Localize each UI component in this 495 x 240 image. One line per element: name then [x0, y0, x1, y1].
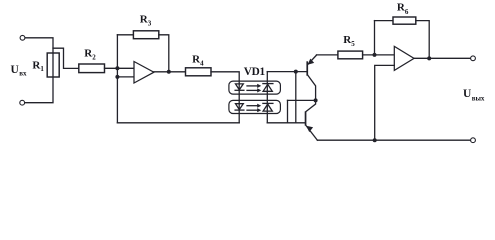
wire	[374, 21, 376, 55]
label R4	[192, 54, 204, 68]
label Uvyx	[463, 88, 485, 102]
resistor R5	[338, 51, 363, 59]
terminal output bottom	[471, 138, 476, 143]
svg-text:5: 5	[351, 40, 355, 48]
svg-text:U: U	[463, 88, 472, 100]
resistor R3	[117, 31, 168, 72]
wire	[105, 67, 135, 69]
node D junction	[294, 70, 298, 74]
resistor R1	[47, 53, 59, 77]
svg-text:VD1: VD1	[244, 66, 266, 78]
wire	[375, 20, 394, 22]
wire	[116, 35, 118, 123]
wire	[416, 21, 429, 59]
label R1	[32, 59, 44, 73]
wire	[266, 72, 268, 123]
resistor R2	[79, 64, 105, 73]
wire	[375, 65, 395, 140]
wire	[53, 48, 79, 68]
wire	[267, 71, 306, 73]
optocoupler VD1 box B	[229, 100, 281, 113]
op-amp U1	[134, 62, 154, 84]
label Uvx	[11, 64, 27, 78]
wire	[267, 122, 305, 124]
wire	[317, 54, 338, 56]
wire	[295, 72, 297, 123]
wire	[288, 99, 316, 101]
photodiode A	[263, 84, 273, 92]
optocoupler VD1 box A	[229, 81, 281, 94]
wire	[363, 54, 395, 56]
node F junction	[373, 53, 377, 57]
terminal input top	[20, 35, 25, 40]
svg-text:вых: вых	[472, 94, 485, 102]
svg-text:вх: вх	[19, 70, 27, 78]
LED diode A	[235, 84, 244, 90]
node H junction	[373, 138, 377, 142]
node G junction	[427, 56, 431, 60]
wire	[154, 71, 186, 73]
photodiode B	[263, 103, 273, 111]
terminal input bottom	[20, 100, 25, 105]
wire	[211, 72, 239, 123]
wire	[287, 100, 289, 122]
node B junction	[115, 75, 119, 79]
label R3	[140, 13, 152, 27]
label R5	[343, 34, 355, 48]
label R2	[84, 48, 96, 62]
resistor R4	[186, 68, 212, 76]
label R6	[397, 2, 409, 16]
wire	[117, 122, 239, 124]
wire	[317, 139, 470, 141]
svg-text:4: 4	[200, 59, 204, 67]
transistor Q2	[305, 100, 318, 140]
terminal output top	[471, 56, 476, 61]
svg-text:1: 1	[40, 65, 44, 73]
node C junction	[167, 70, 171, 74]
wire	[414, 57, 471, 59]
node A junction	[115, 66, 119, 70]
node E junction	[314, 98, 318, 102]
svg-text:3: 3	[148, 19, 152, 27]
light arrows B	[247, 104, 261, 113]
svg-text:U: U	[11, 64, 20, 76]
transistor Q1	[306, 55, 316, 100]
wire	[25, 38, 53, 103]
resistor R6	[393, 17, 416, 24]
light arrows A	[247, 84, 261, 93]
wire	[117, 76, 134, 78]
svg-text:2: 2	[92, 54, 96, 62]
op-amp U2	[394, 46, 414, 70]
svg-text:6: 6	[405, 8, 409, 16]
LED diode B	[235, 104, 244, 110]
